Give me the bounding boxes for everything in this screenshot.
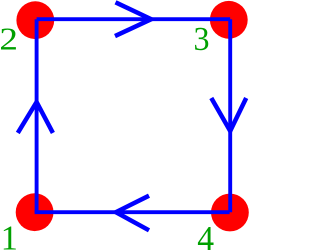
- svg-text:4: 4: [197, 219, 214, 250]
- node 3 (top-right vertex): [210, 1, 248, 39]
- svg-text:3: 3: [194, 21, 210, 58]
- node 1 (bottom-left vertex): [16, 193, 54, 231]
- arrowhead edge 1-2 pointing up: [18, 102, 53, 133]
- wire edge 1-2 (left): [35, 19, 39, 212]
- arrowhead edge 3-4 pointing down: [211, 98, 246, 131]
- svg-text:1: 1: [1, 219, 18, 250]
- arrowhead edge 4-1 pointing left: [116, 196, 149, 231]
- wire edge 3-4 (right): [228, 19, 232, 212]
- node 4 (bottom-right vertex): [211, 194, 249, 232]
- wire edge 2-3 (top): [37, 17, 231, 21]
- arrowhead edge 2-3 pointing right: [115, 2, 151, 36]
- svg-text:2: 2: [0, 22, 18, 57]
- node 2 (top-left vertex): [16, 1, 54, 39]
- wire edge 4-1 (bottom): [35, 210, 230, 214]
